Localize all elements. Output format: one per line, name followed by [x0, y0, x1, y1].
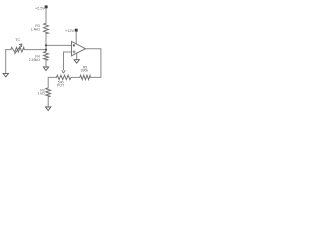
svg-text:2.49kΩ: 2.49kΩ: [29, 58, 41, 62]
svg-text:1.4kΩ: 1.4kΩ: [31, 27, 41, 31]
svg-text:390k: 390k: [81, 69, 89, 73]
svg-text:1 kΩ: 1 kΩ: [37, 92, 45, 96]
svg-text:+2.5V: +2.5V: [35, 6, 45, 10]
svg-text:TC: TC: [15, 38, 20, 42]
svg-text:+12V: +12V: [65, 29, 74, 33]
svg-text:POT: POT: [57, 83, 65, 87]
